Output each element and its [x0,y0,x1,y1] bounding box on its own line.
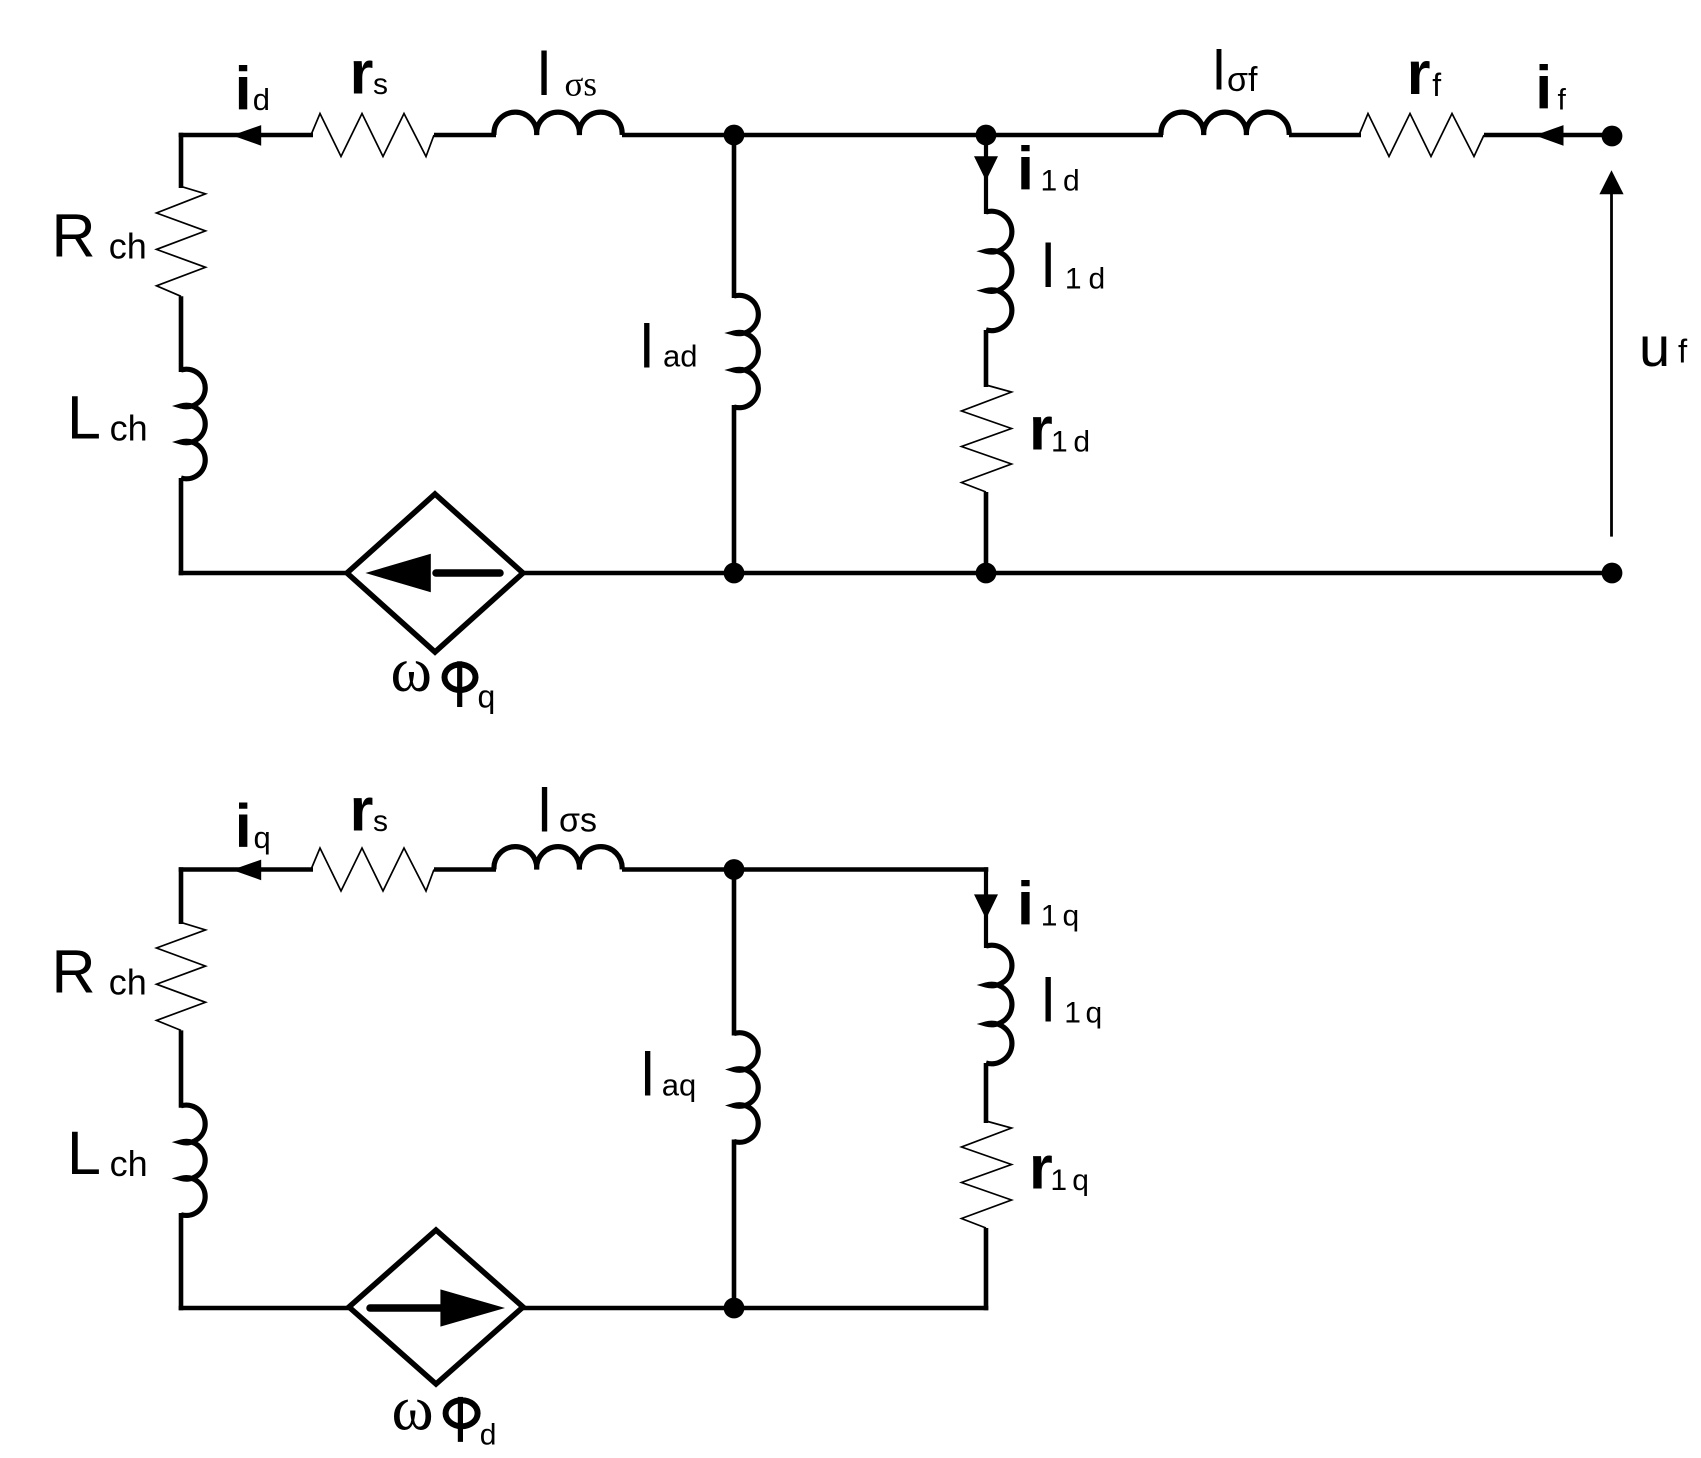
wire left rail upper (node A down to R_ch) [179,133,184,188]
arrowhead current i_1d (pointing down) [974,156,998,181]
svg-text:f: f [1432,67,1441,103]
svg-text:d: d [480,1418,497,1451]
arrowhead current i_q (pointing left) [232,860,261,881]
resistor R_ch (load resistance, d-axis) [157,186,206,296]
resistor r_1q (q-axis damper resistance) [962,1121,1012,1228]
svg-text:σf: σf [1227,61,1258,99]
svg-text:i: i [235,55,252,123]
wire l_1q to r_1q [984,1063,989,1123]
svg-text:q: q [478,679,496,715]
wire source to bottom-right node [521,571,1612,576]
resistor r_s (stator resistance, bottom) [311,848,434,891]
svg-text:r: r [350,775,374,843]
svg-text:aq: aq [662,1068,696,1103]
svg-text:L: L [67,383,101,451]
wire between r_s and l_sigma_s [434,133,496,138]
svg-text:R: R [52,202,96,270]
wire l_ad branch lower [732,405,737,573]
svg-text:l: l [1041,232,1055,300]
wire l_aq branch upper [732,870,737,1036]
wire l_sigma_s to l_sigma_f across nodes [622,133,1163,138]
svg-text:s: s [373,805,388,838]
wire l_sigma_s to top-right corner (q-axis) [622,867,988,872]
wire left rail upper (q-axis) [179,867,184,924]
wire l_aq branch lower [732,1140,737,1309]
voltage arrow u_f (pointing up) [1610,190,1613,537]
node dot bottom (r_1d branch) [976,563,997,584]
svg-text:1: 1 [1050,1164,1067,1197]
svg-text:R: R [52,937,96,1005]
wire source to bottom-right corner (q-axis) [521,1306,988,1311]
svg-text:r: r [1407,39,1431,107]
inductor l_aq (q-axis magnetizing) [734,1033,758,1143]
wire r_1q to bottom-right corner (q-axis) [984,1228,989,1310]
dependent source diamond (omega*phi_d) [349,1230,523,1384]
svg-text:ω: ω [391,635,432,705]
wire l_sigma_f to r_f [1289,133,1361,138]
inductor l_1q (q-axis damper) [986,945,1012,1064]
svg-text:d: d [1089,263,1106,296]
svg-text:1: 1 [1051,426,1068,459]
svg-text:i: i [1017,134,1034,202]
svg-text:u: u [1639,315,1670,378]
wire top-left horizontal (q-axis) [179,867,313,872]
inductor L_ch (load inductance, d-axis) [181,369,205,479]
inductor l_sigma_s (stator leakage, top) [494,112,622,135]
arrow inside source (pointing left) [436,569,500,577]
arrowhead current i_1q (pointing down) [974,894,998,919]
wire between r_s and l_sigma_s (bottom) [434,867,496,872]
wire right branch upper (q-axis) with corner [984,867,988,948]
svg-text:l: l [1213,38,1225,101]
resistor r_1d (d-axis damper resistance) [962,385,1012,492]
svg-text:1: 1 [1041,900,1058,933]
svg-text:q: q [1086,997,1103,1030]
node dot bottom-right (field terminal -) [1602,563,1623,584]
inductor l_sigma_s (stator leakage, bottom) [494,847,622,870]
node dot bottom (l_aq branch) [724,1298,745,1319]
svg-text:i: i [1017,869,1034,937]
wire bottom-left to dependent source [179,571,349,576]
svg-text:l: l [640,312,654,380]
resistor R_ch (load resistance, q-axis) [157,922,206,1030]
svg-text:L: L [67,1119,101,1187]
inductor l_1d (d-axis damper) [986,211,1012,330]
arrow inside source (pointing right) [370,1304,441,1312]
resistor r_s (stator resistance, top) [311,114,434,157]
svg-text:1: 1 [1064,997,1081,1030]
arrowhead current i_f (pointing left) [1535,125,1564,146]
svg-text:σs: σs [559,801,597,839]
svg-text:ch: ch [110,407,148,448]
node dot top (l_ad branch) [724,125,745,146]
wire l_1d branch upper with arrow [984,135,988,214]
svg-text:r: r [1029,1134,1053,1202]
inductor l_ad (d-axis magnetizing) [734,295,758,407]
node dot top (l_aq branch) [724,859,745,880]
node dot top (l_1d branch) [976,125,997,146]
dependent source diamond (omega*phi_q) [347,494,523,652]
svg-text:f: f [1678,332,1688,369]
svg-text:1: 1 [1041,165,1058,198]
svg-text:ad: ad [663,338,697,373]
svg-text:ω: ω [392,1373,434,1444]
svg-text:i: i [1535,54,1552,122]
svg-text:l: l [1041,967,1055,1035]
wire L_ch down to bottom-left corner (q-axis) [179,1213,184,1310]
inductor l_sigma_f (field leakage) [1161,112,1289,135]
svg-text:d: d [1063,165,1080,198]
svg-text:ch: ch [109,961,147,1002]
wire r_f to right node [1484,133,1612,138]
svg-text:q: q [1072,1164,1089,1197]
svg-text:1: 1 [1065,263,1082,296]
svg-text:s: s [373,68,388,101]
wire bottom-left to dependent source (q-axis) [179,1306,351,1311]
svg-text:ch: ch [110,1143,148,1184]
wire L_ch down to bottom-left corner [179,478,184,575]
wire top-left horizontal (node A to resistor rs) [179,133,313,138]
svg-text:i: i [235,792,252,860]
node dot top-right (field terminal +) [1602,126,1623,147]
svg-text:l: l [538,776,552,844]
node dot bottom (l_ad branch) [724,563,745,584]
svg-text:ch: ch [109,226,147,267]
arrowhead current i_d (pointing left) [232,125,261,146]
svg-text:σs: σs [565,65,598,104]
wire r_1d to bottom node [984,492,989,573]
inductor L_ch (load inductance, q-axis) [181,1105,205,1215]
svg-text:d: d [253,82,270,117]
wire l_1d to r_1d [984,330,989,387]
svg-text:d: d [1073,426,1090,459]
wire l_ad branch upper [732,135,737,298]
svg-text:r: r [1029,394,1053,462]
wire between R_ch and L_ch [179,296,184,372]
svg-text:l: l [537,40,551,108]
svg-text:r: r [350,38,374,106]
wire between R_ch and L_ch (q-axis) [179,1030,184,1107]
svg-text:q: q [254,820,271,855]
resistor r_f (field resistance) [1359,114,1484,157]
svg-text:f: f [1558,84,1567,117]
svg-text:l: l [641,1040,655,1108]
svg-text:q: q [1063,900,1080,933]
